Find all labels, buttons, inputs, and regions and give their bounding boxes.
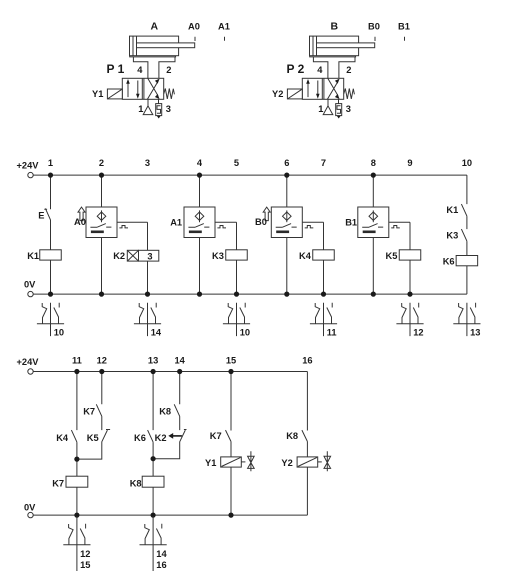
svg-text:K8: K8 xyxy=(130,478,142,488)
svg-text:P 2: P 2 xyxy=(287,62,305,76)
svg-text:3: 3 xyxy=(346,104,351,114)
svg-text:14: 14 xyxy=(151,327,162,337)
svg-text:K1: K1 xyxy=(446,205,458,215)
svg-text:P 1: P 1 xyxy=(107,62,125,76)
svg-text:4: 4 xyxy=(197,158,203,168)
svg-text:0V: 0V xyxy=(24,502,36,512)
svg-text:15: 15 xyxy=(80,560,90,570)
svg-text:K4: K4 xyxy=(299,251,312,261)
svg-text:B0: B0 xyxy=(368,21,380,31)
svg-text:A: A xyxy=(151,20,159,32)
svg-text:0V: 0V xyxy=(24,279,36,289)
svg-text:15: 15 xyxy=(226,356,236,366)
svg-text:A1: A1 xyxy=(218,21,230,31)
svg-text:1: 1 xyxy=(48,158,53,168)
svg-text:2: 2 xyxy=(346,65,351,75)
svg-text:Y2: Y2 xyxy=(272,89,283,99)
svg-text:14: 14 xyxy=(175,356,186,366)
svg-text:4: 4 xyxy=(137,65,143,75)
svg-text:11: 11 xyxy=(72,356,82,366)
svg-text:12: 12 xyxy=(80,549,90,559)
svg-text:8: 8 xyxy=(371,158,376,168)
svg-text:13: 13 xyxy=(148,356,158,366)
svg-text:12: 12 xyxy=(413,327,423,337)
svg-text:1: 1 xyxy=(138,104,143,114)
svg-text:K6: K6 xyxy=(443,257,455,267)
svg-text:K1: K1 xyxy=(27,251,39,261)
svg-text:10: 10 xyxy=(54,327,64,337)
svg-text:7: 7 xyxy=(321,158,326,168)
svg-text:K4: K4 xyxy=(56,433,69,443)
svg-text:K2: K2 xyxy=(113,251,125,261)
svg-text:1: 1 xyxy=(318,104,323,114)
svg-text:6: 6 xyxy=(284,158,289,168)
svg-text:5: 5 xyxy=(234,158,239,168)
svg-text:K7: K7 xyxy=(83,407,95,417)
svg-text:E: E xyxy=(38,211,44,221)
svg-text:A0: A0 xyxy=(74,217,86,227)
svg-text:K8: K8 xyxy=(159,407,171,417)
svg-text:K8: K8 xyxy=(286,431,298,441)
svg-text:K5: K5 xyxy=(386,251,398,261)
svg-text:Y1: Y1 xyxy=(205,458,216,468)
svg-text:K5: K5 xyxy=(87,433,99,443)
svg-text:Y1: Y1 xyxy=(92,89,103,99)
svg-text:10: 10 xyxy=(240,327,250,337)
svg-text:B0: B0 xyxy=(255,217,267,227)
svg-text:3: 3 xyxy=(166,104,171,114)
svg-text:3: 3 xyxy=(147,251,152,261)
svg-text:B1: B1 xyxy=(345,218,357,228)
svg-text:K2: K2 xyxy=(155,433,167,443)
svg-text:13: 13 xyxy=(470,327,480,337)
svg-text:Y2: Y2 xyxy=(281,458,292,468)
svg-text:3: 3 xyxy=(145,158,150,168)
svg-text:+24V: +24V xyxy=(17,161,40,171)
svg-text:A1: A1 xyxy=(170,218,182,228)
svg-text:2: 2 xyxy=(166,65,171,75)
svg-text:2: 2 xyxy=(99,158,104,168)
svg-text:K7: K7 xyxy=(52,478,64,488)
svg-text:A0: A0 xyxy=(188,21,200,31)
svg-text:B: B xyxy=(331,20,339,32)
svg-text:K3: K3 xyxy=(446,231,458,241)
svg-text:14: 14 xyxy=(156,549,167,559)
svg-text:16: 16 xyxy=(302,356,312,366)
svg-text:+24V: +24V xyxy=(17,357,40,367)
svg-text:B1: B1 xyxy=(398,21,410,31)
svg-text:4: 4 xyxy=(317,65,323,75)
svg-text:16: 16 xyxy=(156,560,166,570)
svg-text:12: 12 xyxy=(97,356,107,366)
svg-text:K3: K3 xyxy=(212,251,224,261)
svg-text:11: 11 xyxy=(327,327,337,337)
svg-text:10: 10 xyxy=(462,158,472,168)
svg-text:K7: K7 xyxy=(210,431,222,441)
svg-text:K6: K6 xyxy=(134,433,146,443)
svg-text:9: 9 xyxy=(407,158,412,168)
